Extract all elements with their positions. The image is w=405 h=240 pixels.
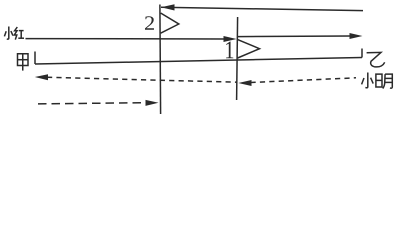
flag 2 triangle on pole 1	[161, 13, 179, 33]
pole 1 (left flag pole vertical line)	[159, 5, 162, 115]
wire: Xiaohong line to pole 2 (arrow right)	[26, 38, 226, 40]
pole 2 (right flag pole vertical line)	[237, 17, 238, 100]
label Xiaoming (小明)	[362, 73, 393, 89]
label Yi (乙)	[367, 52, 385, 67]
label Jia (甲)	[18, 54, 29, 71]
arrowhead left at pole 1	[161, 4, 175, 10]
小	[365, 73, 367, 88]
label 2	[145, 16, 154, 30]
wire: top return line (arrow left into pole 1)	[161, 7, 363, 10]
明	[376, 74, 382, 87]
flag 1 triangle on pole 2	[238, 40, 260, 58]
arrowhead right end	[350, 33, 363, 39]
小	[7, 27, 9, 40]
arrowhead right at pole 2	[224, 36, 237, 42]
wire: dashed line A (arrow left at x=35)	[47, 77, 237, 82]
红	[14, 27, 17, 40]
wire: dashed line B from Xiaoming to pole 2 (arrow left)	[251, 78, 357, 83]
wire: dashed line C to pole 1 (arrow right)	[38, 103, 147, 104]
label 1	[226, 42, 233, 59]
label Xiaohong (小红)	[4, 27, 24, 40]
wire: line from pole 2 to right (arrow right)	[238, 35, 351, 38]
wire: Jia-Yi segment with end ticks	[35, 58, 362, 65]
right tick	[361, 49, 363, 58]
left tick	[34, 52, 36, 65]
